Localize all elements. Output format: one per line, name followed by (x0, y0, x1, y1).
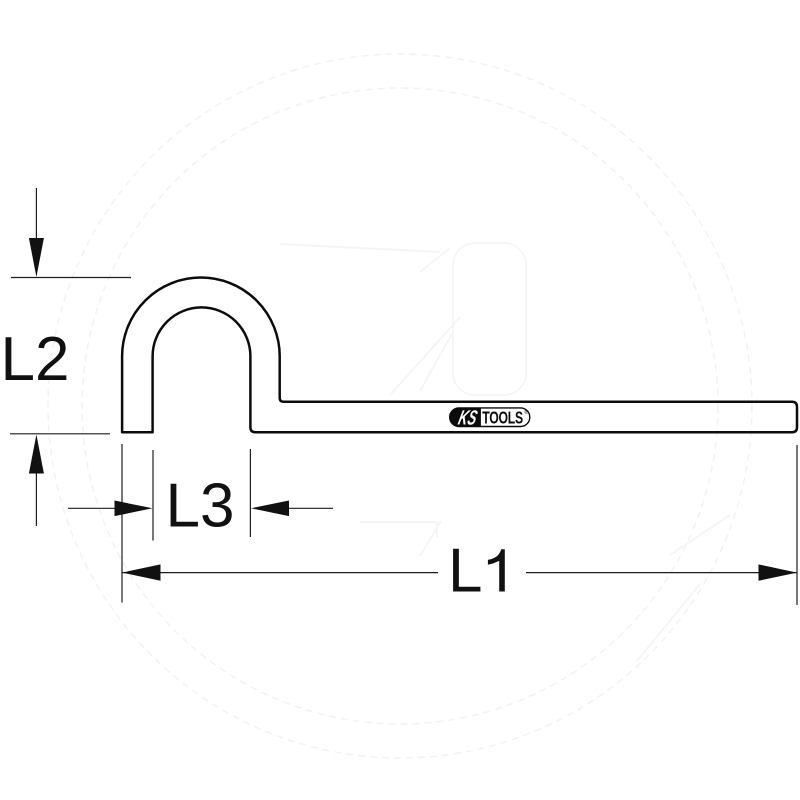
svg-text:TOOLS: TOOLS (482, 408, 523, 428)
L2 down arrow (29, 238, 44, 277)
L3 left extension line (152, 450, 154, 541)
svg-text:L: L (448, 537, 482, 606)
L3 dim line left (68, 507, 116, 509)
L2 bottom extension line (10, 433, 110, 435)
L1 right extension line (796, 445, 798, 605)
L3 right-pointing arrow (115, 501, 153, 517)
watermark outer circle (48, 54, 752, 758)
L3 left-pointing arrow (251, 501, 289, 517)
L1 left arrow (122, 564, 161, 580)
watermark letter O outline (453, 243, 526, 395)
tool outline (hook wrench body) (122, 278, 797, 433)
L3 dim line right (287, 507, 333, 509)
L1 right arrow (759, 564, 798, 580)
L3 right extension line (249, 449, 251, 537)
L1 dim line right (526, 572, 797, 574)
L2 top extension line (11, 277, 131, 279)
L2 up-arrow shaft (35, 470, 37, 526)
watermark diagonal strokes (280, 244, 730, 661)
L2 down-arrow shaft (35, 188, 37, 242)
svg-text:®: ® (524, 409, 528, 416)
arrowheads (29, 238, 797, 581)
watermark inner circle (82, 88, 718, 724)
L2 up arrow (29, 435, 44, 474)
KS TOOLS logo on bar (450, 406, 530, 429)
L1 left extension line (121, 444, 123, 603)
dimension thin lines (10, 188, 797, 605)
L1 dim line left (122, 572, 438, 574)
svg-text:L2: L2 (1, 325, 70, 394)
svg-text:L3: L3 (166, 472, 235, 541)
